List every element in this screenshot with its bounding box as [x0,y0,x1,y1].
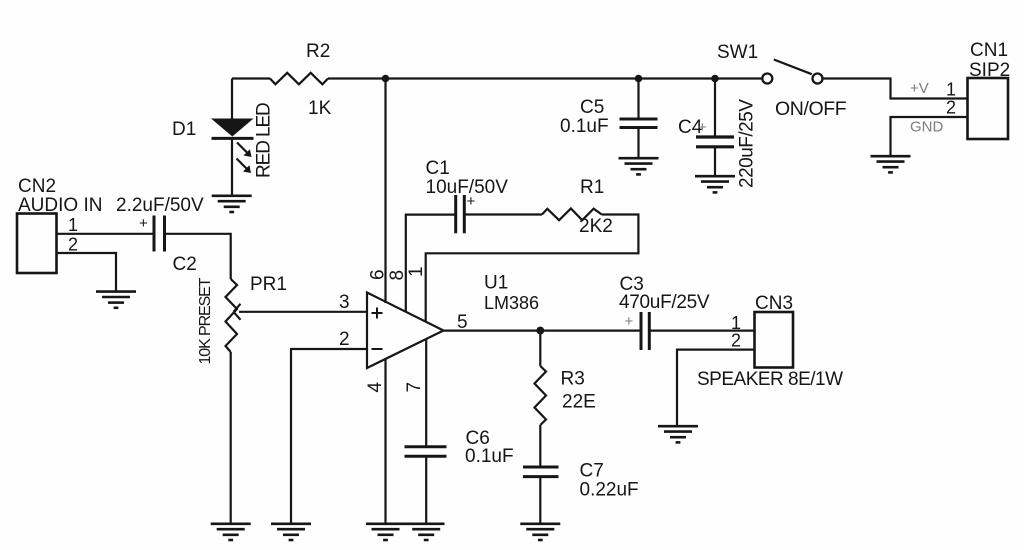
node junction C4/SW1 [711,75,719,83]
resistor R3 [535,366,547,425]
svg-text:2: 2 [339,329,350,350]
svg-text:CN3: CN3 [755,293,793,314]
wire SW1 to CN1 pin1 [822,79,967,99]
svg-text:2: 2 [946,98,956,118]
svg-text:U1: U1 [484,273,508,294]
wire C7 to ground [539,477,541,524]
svg-text:C2: C2 [173,254,197,275]
node junction R2/pin6 [382,75,390,83]
svg-text:AUDIO IN: AUDIO IN [18,195,102,216]
svg-text:0.1uF: 0.1uF [465,446,514,467]
wire op-amp pin2 to ground [291,349,367,524]
wire CN2 pin1 to C2 [57,233,154,235]
svg-text:PR1: PR1 [250,274,287,295]
svg-text:10K PRESET: 10K PRESET [197,277,214,364]
svg-text:7: 7 [404,382,425,393]
svg-text:CN1: CN1 [970,40,1008,61]
wire LED to ground [231,138,233,195]
svg-text:22E: 22E [562,392,596,413]
ground (pin4 and C6, merged top bar) [366,524,445,540]
svg-text:SPEAKER 8E/1W: SPEAKER 8E/1W [697,369,843,390]
wire op-amp output pin5 to C3 [444,330,641,332]
diode D1 red LED [211,119,254,174]
resistor R2 [270,73,328,85]
svg-text:GND: GND [910,119,944,136]
svg-text:D1: D1 [172,119,196,140]
svg-text:1: 1 [68,215,78,235]
svg-text:2: 2 [68,235,78,255]
ground (C5) [619,158,659,174]
capacitor C5 [620,79,658,158]
capacitor C2 [154,216,165,252]
wire R3 to C7 [539,425,541,466]
svg-text:5: 5 [457,312,468,333]
wire pin4 to ground [384,360,386,524]
svg-text:R2: R2 [306,41,330,62]
capacitor C1 [456,195,465,233]
svg-text:ON/OFF: ON/OFF [775,98,847,120]
ground (PR1) [211,524,251,540]
svg-text:SW1: SW1 [717,42,758,63]
ground (op-amp pin2) [271,524,311,540]
wire C3 to CN3 pin1 [650,330,755,332]
svg-text:CN2: CN2 [18,176,56,197]
op-amp U1 triangle [367,293,444,369]
wire R2 to junction and across top rail to switch [328,77,762,79]
svg-text:+: + [139,215,148,232]
wire top rail left segment to R2 [232,77,270,79]
svg-text:2K2: 2K2 [579,216,613,237]
ground (CN2 pin2) [96,292,136,308]
svg-text:1: 1 [946,80,956,100]
resistor R1 [542,209,602,221]
connector CN3 box [755,312,794,368]
ground (CN3 pin2) [658,426,698,442]
svg-text:+: + [698,119,707,136]
wire CN3 pin2 to ground [677,350,755,426]
switch SW1 [762,60,822,84]
wire C2 to PR1 [165,234,231,279]
capacitor C3 [641,312,649,350]
op-amp plus input marker [372,308,383,319]
capacitor C6 [405,447,447,457]
svg-text:+V: +V [910,80,929,97]
svg-text:4: 4 [365,382,386,393]
svg-text:2.2uF/50V: 2.2uF/50V [116,195,204,216]
PR1 wiper arrow and wire to pin 3 [234,304,368,320]
wire CN1 pin2 GND net [891,117,968,156]
potentiometer PR1 [226,279,238,352]
svg-text:LM386: LM386 [484,293,539,313]
wire C6 to ground [425,457,427,524]
wire pin7 to C6 [425,339,427,446]
node junction C5 [635,75,643,83]
wire pin8 to C1 [406,215,455,313]
wire CN2 pin2 to ground [57,253,117,291]
connector CN1 box [968,78,1009,139]
svg-text:C7: C7 [580,461,604,482]
svg-text:2: 2 [731,331,741,351]
ground (C7) [520,524,560,540]
capacitor C7 [523,467,559,477]
svg-text:C1: C1 [426,158,450,179]
svg-text:+: + [467,193,476,210]
svg-text:+: + [625,313,634,330]
ground (CN1) [871,156,911,172]
svg-text:R1: R1 [580,177,604,198]
svg-text:SIP2: SIP2 [969,60,1010,81]
svg-text:R3: R3 [561,369,585,390]
svg-text:8: 8 [387,270,408,281]
svg-text:1K: 1K [308,98,332,119]
wire PR1 bottom to ground [230,352,232,524]
wire pin6 vertical from junction to op-amp [384,79,386,304]
svg-text:RED LED: RED LED [254,103,275,178]
svg-text:6: 6 [368,269,389,280]
svg-text:470uF/25V: 470uF/25V [619,292,710,313]
wire junction down to R3 [539,331,541,366]
svg-text:3: 3 [339,292,350,313]
op-amp minus input marker [372,348,383,350]
wire C1 to R1 [466,213,543,215]
node junction output/R3 [536,327,544,335]
wire top-left down to LED [231,79,233,120]
svg-text:220uF/25V: 220uF/25V [737,99,758,188]
capacitor C4 [696,79,734,176]
svg-text:C5: C5 [580,97,604,118]
ground (D1) [212,196,252,212]
svg-text:0.1uF: 0.1uF [560,116,609,137]
wire R1 to pin1 [426,215,639,323]
ground (C4) [695,176,735,192]
connector CN2 box [17,214,57,274]
svg-text:0.22uF: 0.22uF [580,480,639,501]
svg-text:1: 1 [406,266,427,277]
